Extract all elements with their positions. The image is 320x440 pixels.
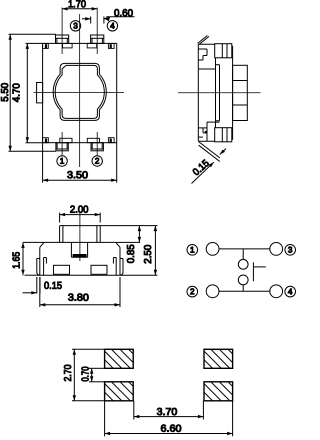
top view: switch body outline <box>43 43 117 142</box>
side view: internal steps bottom-left <box>198 127 207 129</box>
svg-text:2.00: 2.00 <box>70 205 89 216</box>
top view: horizontal centerline <box>34 92 125 94</box>
side view: bottom terminal block <box>215 128 232 142</box>
side view: top terminal block <box>215 44 232 58</box>
svg-text:2.50: 2.50 <box>143 244 154 263</box>
dimension 0.15 (side view, lead standoff) <box>199 142 220 158</box>
schematic: pushbutton actuator bar <box>252 262 254 281</box>
top view: left side tab <box>37 83 43 103</box>
svg-text:4: 4 <box>288 287 293 296</box>
dimension 1.65 (front view left) <box>22 242 24 275</box>
svg-text:0.70: 0.70 <box>81 366 92 381</box>
front view: right J-lead <box>120 259 123 276</box>
dimension 6.60 (land pattern bottom outer) <box>104 401 106 437</box>
dimension 3.80 (front view bottom) <box>39 277 41 307</box>
dimension 2.70 (land pattern left) <box>72 348 105 350</box>
dimension 3.70 (land pattern bottom inner) <box>133 401 135 420</box>
top view: terminal 4 (top-right) lead <box>91 35 104 43</box>
side view: horizontal centerline <box>178 92 261 94</box>
svg-text:2: 2 <box>190 287 195 296</box>
front view: button outline <box>59 226 61 243</box>
front view: left contact window <box>54 265 70 274</box>
front view: body top edge <box>23 241 140 243</box>
side view: internal steps top-left <box>198 48 207 50</box>
svg-text:6.60: 6.60 <box>160 424 181 435</box>
front view: left J-lead <box>37 259 40 276</box>
dimension 3.50 (bottom) <box>42 143 44 183</box>
svg-text:0.85: 0.85 <box>126 244 137 263</box>
top view: terminal centerlines <box>61 8 63 55</box>
dimension 0.60 (top right) <box>90 17 92 24</box>
side view: left edge <box>197 44 199 141</box>
schematic: lower contact circle <box>238 275 248 285</box>
dimension 0.85 (front view right) <box>100 225 157 227</box>
top view: actuator inner outline <box>55 65 104 118</box>
side view: internal lines bottom <box>206 122 208 141</box>
svg-text:1: 1 <box>60 157 65 166</box>
schematic: pin label 3 <box>285 245 296 256</box>
svg-text:5.50: 5.50 <box>0 82 11 101</box>
top view: vertical centerline <box>79 14 81 167</box>
svg-text:1: 1 <box>190 245 195 254</box>
dimension 5.50 (left) <box>9 34 11 151</box>
schematic: top wire <box>219 248 270 250</box>
dimension 4.70 (left) <box>26 43 28 142</box>
schematic: bottom-left terminal circle <box>206 285 219 298</box>
dimension 0.15 (front view lead thickness) <box>36 277 38 294</box>
top view: actuator outer outline <box>53 63 106 120</box>
schematic: pin label 2 <box>187 286 198 297</box>
top view: terminal 3 (top-left) lead <box>56 35 69 43</box>
svg-text:2: 2 <box>95 157 100 166</box>
front view: body bottom edge <box>37 274 123 276</box>
pin label 2 (top view) <box>92 156 102 166</box>
pin label 3 (top view) <box>70 21 80 31</box>
svg-text:3: 3 <box>288 245 293 254</box>
dimension 2.00 (front view top) <box>59 213 61 223</box>
schematic: lower contact stub wire <box>242 285 244 292</box>
front view: body corner bevels <box>40 242 44 247</box>
schematic: upper contact circle <box>238 259 248 269</box>
dimension 1.70 (top) <box>62 8 97 10</box>
svg-text:0.60: 0.60 <box>114 8 133 19</box>
side view: push button <box>233 65 248 120</box>
svg-text:1.70: 1.70 <box>68 0 86 10</box>
svg-text:3: 3 <box>73 21 78 30</box>
pin label 4 (top view) <box>107 21 117 31</box>
top view: terminal 1 (bottom-left) lead <box>60 138 72 142</box>
schematic: bottom-right terminal circle <box>270 285 283 298</box>
schematic: pin label 4 <box>285 286 296 297</box>
schematic: upper contact stub wire <box>242 249 244 260</box>
schematic: bottom wire <box>219 290 270 292</box>
side view: body right edge <box>232 46 234 140</box>
front view: body left side <box>39 247 41 275</box>
svg-text:3.50: 3.50 <box>67 170 88 181</box>
front view: body right side <box>119 247 121 275</box>
side view: top-left bent lead tip <box>198 36 208 44</box>
front view: right contact window <box>91 265 107 274</box>
top view: terminal 2 (bottom-right) lead <box>87 138 99 142</box>
svg-text:1.65: 1.65 <box>11 251 22 268</box>
side view: internal verticals <box>215 58 217 128</box>
front view: button inner edges <box>62 226 64 243</box>
pin label 1 (top view) <box>57 156 67 166</box>
svg-text:3.70: 3.70 <box>157 407 178 418</box>
svg-text:4.70: 4.70 <box>12 83 23 102</box>
top view: corner notches with castellation marks <box>43 43 49 48</box>
svg-text:4: 4 <box>110 21 115 30</box>
dimension 0.70 (land pattern left gap) <box>89 367 105 369</box>
side view: bottom edge <box>198 140 214 142</box>
side view: internal line top <box>198 68 215 70</box>
front view: center notch <box>70 242 72 257</box>
schematic: top-right terminal circle <box>270 243 283 256</box>
svg-text:3.80: 3.80 <box>68 293 89 304</box>
side view: top edge <box>198 43 214 45</box>
svg-text:2.70: 2.70 <box>63 364 74 381</box>
svg-text:0.15: 0.15 <box>44 281 62 292</box>
front view: vertical centerline <box>79 213 81 261</box>
dimension 2.50 (front view right) <box>123 274 157 276</box>
schematic: pin label 1 <box>187 245 198 256</box>
schematic: top-left terminal circle <box>206 243 219 256</box>
